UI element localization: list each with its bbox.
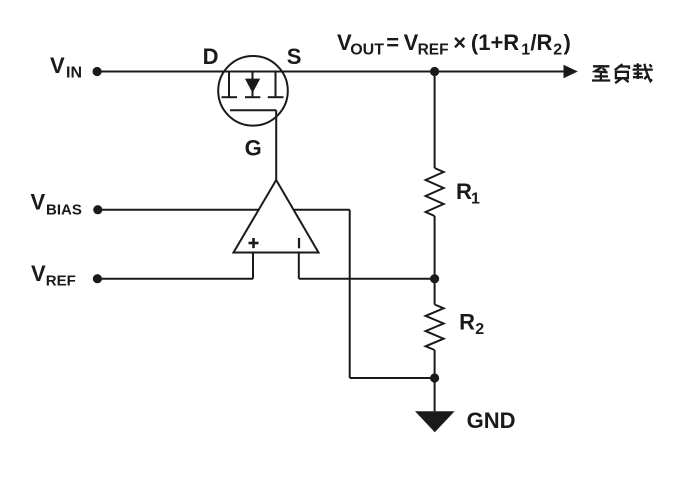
svg-text:BIAS: BIAS: [46, 201, 82, 218]
svg-text:V: V: [50, 53, 65, 78]
svg-text:×: ×: [453, 30, 466, 55]
svg-text:V: V: [404, 30, 419, 55]
node feedback junction: [430, 274, 439, 283]
Q1 gate plate: [230, 109, 276, 111]
op-amp U1 error amplifier: [234, 180, 319, 253]
svg-text:2: 2: [553, 42, 562, 59]
svg-text:V: V: [31, 261, 46, 286]
output arrowhead to load: [564, 65, 578, 78]
label zhi-fuzai (to load) drawn glyphs: [592, 63, 653, 83]
svg-text:OUT: OUT: [350, 42, 384, 59]
wire minus input to feedback node: [298, 253, 300, 279]
node VBIAS terminal: [93, 205, 102, 214]
glyph zai: [634, 65, 642, 67]
glyph zhi: [593, 65, 609, 67]
glyph fu: [615, 64, 623, 70]
wire R1 to feedback node: [434, 216, 436, 305]
svg-text:1: 1: [521, 42, 530, 59]
svg-text:/R: /R: [530, 30, 552, 55]
svg-text:): ): [564, 30, 571, 55]
node VREF terminal: [93, 274, 102, 283]
wire output node to R1: [434, 72, 436, 169]
node VIN terminal: [93, 67, 102, 76]
svg-text:R: R: [456, 179, 472, 204]
node output junction: [430, 67, 439, 76]
wire VBIAS to op-amp: [98, 209, 260, 211]
Q1 channel dash center: [245, 96, 260, 98]
resistor R1: [426, 168, 444, 216]
Q1 channel dash right: [268, 96, 284, 98]
svg-text:GND: GND: [467, 408, 516, 433]
formula VOUT = VREF x (1+R1/R2): [337, 30, 571, 59]
svg-text:R: R: [459, 310, 475, 335]
transistor Q1 PMOS circle: [218, 56, 288, 126]
svg-text:D: D: [203, 44, 219, 69]
Q1 channel dash left: [222, 96, 238, 98]
Q1 body contact with arrow: [252, 72, 254, 98]
wire R2 to ground node: [434, 350, 436, 411]
svg-text:REF: REF: [46, 272, 76, 289]
resistor R2: [426, 305, 444, 351]
svg-text:IN: IN: [66, 64, 82, 81]
Q1 source contact: [275, 72, 277, 98]
node ground junction: [430, 373, 439, 382]
op-amp minus mark: [298, 238, 300, 248]
svg-text:1: 1: [471, 190, 480, 207]
Q1 drain contact: [228, 72, 230, 98]
svg-text:G: G: [245, 136, 262, 161]
svg-text:=: =: [386, 30, 399, 55]
ground symbol: [415, 411, 455, 432]
svg-text:(1+R: (1+R: [471, 30, 519, 55]
wire op-amp ground return: [293, 209, 350, 211]
svg-text:REF: REF: [418, 42, 449, 59]
svg-text:2: 2: [475, 321, 484, 338]
svg-text:S: S: [287, 44, 302, 69]
wire VREF to plus input: [97, 278, 253, 280]
wire main VIN to output arrow: [97, 71, 565, 73]
op-amp plus mark: [249, 242, 259, 245]
wire gate to op-amp output: [275, 110, 277, 180]
svg-text:V: V: [31, 190, 46, 215]
